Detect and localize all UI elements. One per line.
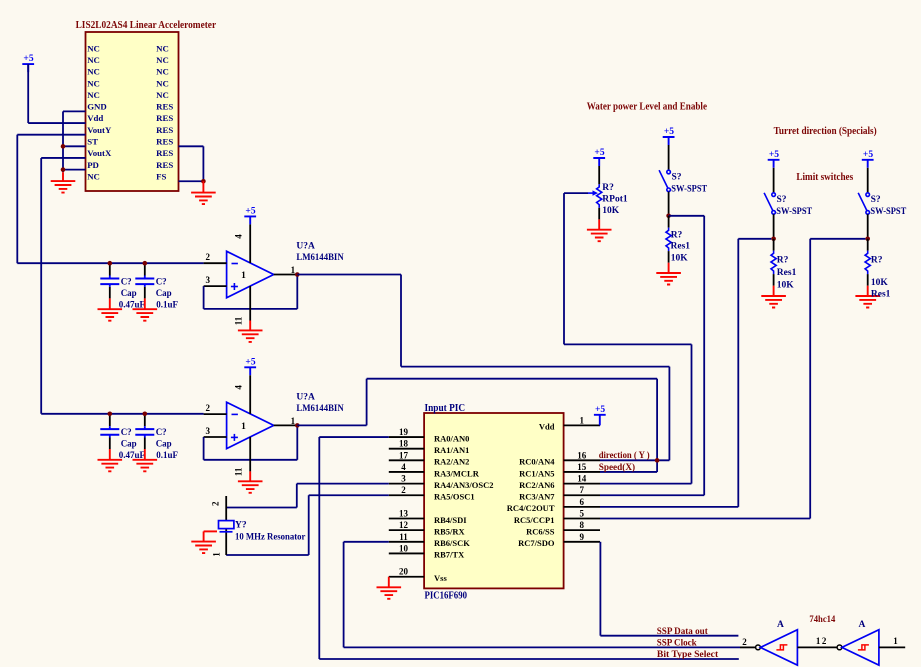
- wire RA5/OSC1 to resonator pin 1: [309, 494, 389, 496]
- svg-text:+5: +5: [245, 207, 255, 217]
- junction ST: [61, 144, 66, 149]
- accelerometer IC U? LIS2L02AS4: [86, 32, 179, 191]
- PIC pin 5 RC5/CCP1: [564, 518, 600, 520]
- wire PD pin: [63, 169, 86, 171]
- svg-text:RPot1: RPot1: [602, 195, 628, 205]
- PIC pin 1 Vdd: [564, 424, 600, 426]
- PIC pin 15 RC1/AN5: [564, 471, 600, 473]
- svg-text:SW-SPST: SW-SPST: [870, 207, 906, 217]
- microcontroller U? PIC16F690 Input PIC: [424, 413, 563, 588]
- wire ST pin: [63, 145, 86, 147]
- svg-text:RC2/AN6: RC2/AN6: [519, 480, 554, 490]
- svg-text:1: 1: [212, 552, 222, 557]
- svg-text:RB5/RX: RB5/RX: [434, 526, 466, 536]
- svg-text:RC1/AN5: RC1/AN5: [519, 468, 554, 478]
- power +5 pin 4: [244, 367, 256, 375]
- svg-text:1: 1: [241, 422, 246, 432]
- svg-text:10: 10: [399, 543, 409, 553]
- svg-text:5: 5: [580, 509, 585, 519]
- svg-text:RES: RES: [156, 137, 173, 147]
- PIC pin 6 RC4/C2OUT: [564, 506, 600, 508]
- svg-text:14: 14: [577, 474, 587, 484]
- svg-text:11: 11: [234, 467, 244, 476]
- resistor R? Res1 10K water: [656, 216, 681, 285]
- svg-text:16: 16: [577, 450, 587, 460]
- svg-text:Cap: Cap: [156, 439, 172, 449]
- pin 1 output stub: [274, 424, 298, 426]
- power +5 pin 4: [244, 216, 256, 224]
- junction direction/speed: [655, 458, 660, 463]
- junction water switch: [666, 214, 671, 219]
- inverter gate A 74hc14: [837, 645, 842, 650]
- wire RC7/SDO to SSP Data out: [599, 542, 601, 636]
- wire RA0 to Bit Type Select: [319, 436, 389, 438]
- svg-text:S?: S?: [777, 195, 787, 205]
- svg-text:19: 19: [399, 427, 409, 437]
- svg-text:12: 12: [399, 520, 409, 530]
- svg-text:RC4/C2OUT: RC4/C2OUT: [507, 503, 555, 513]
- ground Vss: [388, 577, 390, 588]
- PIC pin 2 RA5/OSC1: [389, 494, 424, 496]
- svg-text:10K: 10K: [871, 278, 889, 288]
- junction turret switch: [771, 237, 776, 242]
- PIC pin 4 RA3/MCLR: [389, 471, 424, 473]
- svg-text:7: 7: [580, 485, 585, 495]
- svg-text:NC: NC: [87, 55, 100, 65]
- svg-text:20: 20: [399, 567, 409, 577]
- svg-text:Vdd: Vdd: [539, 422, 555, 432]
- svg-text:GND: GND: [87, 102, 107, 112]
- PIC pin 12 RB5/RX: [389, 529, 424, 531]
- svg-text:NC: NC: [87, 78, 100, 88]
- svg-text:4: 4: [401, 462, 406, 472]
- svg-text:0.47uF: 0.47uF: [119, 299, 146, 309]
- PIC pin 9 RC7/SDO: [564, 541, 600, 543]
- svg-text:Bit Type Select: Bit Type Select: [657, 650, 719, 660]
- svg-text:RB6/SCK: RB6/SCK: [434, 538, 470, 548]
- wire turret B to RC5: [810, 238, 865, 240]
- svg-text:PIC16F690: PIC16F690: [425, 591, 468, 602]
- wiper arrow: [588, 192, 594, 194]
- wire +5 to Vdd pin: [27, 64, 29, 123]
- svg-text:S?: S?: [672, 172, 682, 182]
- svg-text:RC3/AN7: RC3/AN7: [519, 492, 555, 502]
- svg-text:2: 2: [206, 403, 211, 413]
- wire VoutY to op-amp 1 input: [17, 134, 85, 136]
- switch S? SW-SPST water power: [663, 137, 675, 145]
- svg-text:RC5/CCP1: RC5/CCP1: [514, 515, 555, 525]
- svg-text:0.1uF: 0.1uF: [156, 299, 178, 309]
- svg-text:RA1/AN1: RA1/AN1: [434, 445, 469, 455]
- svg-text:NC: NC: [156, 78, 169, 88]
- svg-text:RES: RES: [156, 148, 173, 158]
- ground accel right: [202, 181, 204, 192]
- inverter gate A 74hc14: [756, 645, 761, 650]
- svg-text:4: 4: [234, 234, 244, 239]
- svg-text:+5: +5: [23, 54, 33, 64]
- svg-text:0.1uF: 0.1uF: [156, 450, 178, 460]
- svg-text:1: 1: [291, 416, 296, 426]
- pin 2 stub: [204, 262, 227, 264]
- svg-text:RC7/SDO: RC7/SDO: [518, 538, 555, 548]
- svg-text:NC: NC: [156, 55, 169, 65]
- svg-text:+5: +5: [245, 357, 255, 367]
- svg-text:Cap: Cap: [156, 288, 172, 298]
- PIC pin 16 RC0/AN4: [564, 459, 600, 461]
- svg-text:3: 3: [206, 426, 211, 436]
- wire between inverters: [797, 646, 837, 648]
- PIC pin 3 RA4/AN3/OSC2: [389, 483, 424, 485]
- input stub right inverter: [879, 646, 905, 648]
- svg-text:RA5/OSC1: RA5/OSC1: [434, 492, 475, 502]
- svg-text:18: 18: [399, 439, 409, 449]
- svg-text:RC6/SS: RC6/SS: [526, 526, 555, 536]
- ground accel left: [62, 172, 64, 181]
- PIC pin 8 RC6/SS: [564, 529, 600, 531]
- wire RPot wiper to RC2: [564, 192, 588, 194]
- op-amp U?A LM6144BIN: [227, 402, 274, 448]
- power +5 accel: [22, 64, 34, 72]
- svg-text:C?: C?: [156, 276, 167, 286]
- PIC pin 10 RB7/TX: [389, 552, 424, 554]
- svg-text:SW-SPST: SW-SPST: [671, 184, 707, 194]
- PIC pin 11 RB6/SCK: [389, 541, 424, 543]
- switch S? SW-SPST turret: [768, 160, 780, 168]
- wire op-amp1 output to RC0 direction(Y): [297, 274, 401, 276]
- svg-text:+5: +5: [863, 150, 873, 160]
- capacitor C? 0.47uF (op-amp 1): [98, 263, 123, 321]
- svg-text:U?A: U?A: [296, 392, 315, 402]
- svg-text:+5: +5: [595, 405, 605, 415]
- svg-text:3: 3: [206, 275, 211, 285]
- PIC pin 13 RB4/SDI: [389, 518, 424, 520]
- svg-text:Speed(X): Speed(X): [599, 462, 635, 473]
- svg-text:C?: C?: [156, 427, 167, 437]
- wire water switch to RC3: [669, 215, 705, 217]
- svg-text:2: 2: [742, 637, 747, 647]
- pin 3 stub: [204, 436, 227, 438]
- svg-text:2: 2: [206, 252, 211, 262]
- svg-text:15: 15: [577, 462, 587, 472]
- svg-text:VoutY: VoutY: [87, 125, 112, 135]
- svg-text:RES: RES: [156, 113, 173, 123]
- pin 2 stub: [204, 413, 227, 415]
- svg-text:2: 2: [401, 485, 406, 495]
- svg-text:13: 13: [399, 509, 409, 519]
- svg-text:PD: PD: [87, 160, 99, 170]
- ground pin 11: [249, 286, 251, 321]
- pin 3 stub: [204, 285, 227, 287]
- svg-text:A: A: [777, 620, 784, 630]
- wire op-amp2 output to RC1 Speed(X): [297, 424, 366, 426]
- PIC pin 14 RC2/AN6: [564, 483, 600, 485]
- svg-text:Input PIC: Input PIC: [425, 403, 466, 414]
- svg-text:10 MHz Resonator: 10 MHz Resonator: [235, 533, 306, 543]
- svg-text:2: 2: [211, 501, 221, 506]
- svg-text:RES: RES: [156, 160, 173, 170]
- wire RES pin to FS pin: [179, 145, 204, 147]
- svg-text:Vss: Vss: [434, 573, 447, 583]
- svg-text:RB7/TX: RB7/TX: [434, 550, 465, 560]
- wire VoutX to op-amp 2 input: [41, 157, 85, 159]
- svg-text:Res1: Res1: [671, 242, 691, 252]
- svg-text:NC: NC: [87, 171, 100, 181]
- ground pin 11: [249, 437, 251, 472]
- svg-text:3: 3: [401, 474, 406, 484]
- PIC pin 17 RA2/AN2: [389, 459, 424, 461]
- wire turret A to RC4: [738, 238, 771, 240]
- svg-text:C?: C?: [121, 427, 132, 437]
- svg-text:ST: ST: [87, 137, 98, 147]
- svg-text:11: 11: [399, 532, 408, 542]
- svg-text:10K: 10K: [777, 280, 795, 290]
- svg-text:RA0/AN0: RA0/AN0: [434, 433, 469, 443]
- resonator Y? 10 MHz: [225, 496, 227, 521]
- PIC pin 20 Vss: [389, 576, 424, 578]
- PIC pin 19 RA0/AN0: [389, 436, 424, 438]
- svg-text:R?: R?: [671, 231, 683, 241]
- svg-text:+5: +5: [664, 127, 674, 137]
- svg-text:LM6144BIN: LM6144BIN: [296, 404, 343, 414]
- svg-text:R?: R?: [777, 255, 789, 265]
- svg-text:R?: R?: [602, 183, 614, 193]
- wire RB6/SCK to SSP Clock: [344, 541, 389, 543]
- svg-text:Y?: Y?: [235, 520, 247, 530]
- svg-text:SW-SPST: SW-SPST: [776, 207, 812, 217]
- svg-text:9: 9: [580, 532, 585, 542]
- svg-text:11: 11: [234, 316, 244, 325]
- svg-text:1: 1: [816, 636, 821, 646]
- wire RA4/OSC2 to resonator pin 2: [297, 483, 389, 485]
- wire GND pin to ground: [63, 110, 86, 112]
- svg-text:RA3/MCLR: RA3/MCLR: [434, 468, 480, 478]
- svg-text:C?: C?: [121, 276, 132, 286]
- junction PD: [61, 167, 66, 172]
- svg-text:S?: S?: [871, 195, 881, 205]
- resistor R? Res1 10K turret: [761, 239, 786, 308]
- svg-text:10K: 10K: [671, 254, 689, 264]
- svg-text:RB4/SDI: RB4/SDI: [434, 515, 467, 525]
- resistor R? Res1 10K turret: [855, 239, 880, 308]
- svg-text:LM6144BIN: LM6144BIN: [296, 253, 343, 263]
- op-amp U?A LM6144BIN: [227, 251, 274, 297]
- svg-text:Res1: Res1: [777, 268, 797, 278]
- svg-text:8: 8: [580, 520, 585, 530]
- svg-text:Cap: Cap: [121, 439, 137, 449]
- svg-text:RES: RES: [156, 102, 173, 112]
- PIC pin 7 RC3/AN7: [564, 494, 600, 496]
- svg-text:1: 1: [580, 415, 585, 425]
- svg-text:FS: FS: [156, 171, 166, 181]
- svg-text:R?: R?: [871, 255, 883, 265]
- pin 1 output stub: [274, 274, 298, 276]
- svg-text:SSP Clock: SSP Clock: [657, 639, 698, 649]
- capacitor C? 0.1uF (op-amp 2): [133, 414, 158, 472]
- junction output: [295, 272, 300, 277]
- svg-text:NC: NC: [156, 67, 169, 77]
- feedback wire: [296, 425, 298, 459]
- PIC pin 18 RA1/AN1: [389, 448, 424, 450]
- feedback wire: [296, 275, 298, 309]
- svg-text:RES: RES: [156, 125, 173, 135]
- power +5 PIC Vdd: [594, 415, 606, 426]
- svg-text:Water power Level and Enable: Water power Level and Enable: [587, 102, 708, 113]
- svg-text:NC: NC: [87, 67, 100, 77]
- svg-text:+5: +5: [769, 150, 779, 160]
- svg-text:NC: NC: [87, 90, 100, 100]
- svg-text:NC: NC: [87, 43, 100, 53]
- svg-text:direction ( Y ): direction ( Y ): [599, 450, 650, 461]
- junction output: [295, 423, 300, 428]
- svg-text:17: 17: [399, 450, 409, 460]
- capacitor C? 0.1uF (op-amp 1): [133, 263, 158, 321]
- svg-text:1: 1: [241, 271, 246, 281]
- junction turret switch: [865, 237, 870, 242]
- svg-text:1: 1: [893, 636, 898, 646]
- junction FS: [201, 179, 206, 184]
- svg-text:2: 2: [822, 636, 827, 646]
- svg-text:U?A: U?A: [296, 241, 315, 251]
- svg-text:10K: 10K: [602, 206, 620, 216]
- svg-text:4: 4: [234, 385, 244, 390]
- svg-text:NC: NC: [156, 43, 169, 53]
- svg-text:Res1: Res1: [871, 290, 891, 300]
- svg-text:0.47uF: 0.47uF: [119, 450, 146, 460]
- svg-text:+5: +5: [594, 148, 604, 158]
- svg-text:RA2/AN2: RA2/AN2: [434, 457, 469, 467]
- svg-text:NC: NC: [156, 90, 169, 100]
- switch S? SW-SPST turret: [862, 160, 874, 168]
- svg-text:RC0/AN4: RC0/AN4: [519, 457, 555, 467]
- svg-text:A: A: [858, 620, 865, 630]
- ground resonator: [204, 530, 217, 532]
- potentiometer R? RPot1 10K: [593, 158, 605, 166]
- svg-text:Cap: Cap: [121, 288, 137, 298]
- svg-text:LIS2L02AS4 Linear Acceleromete: LIS2L02AS4 Linear Accelerometer: [76, 20, 217, 31]
- svg-text:6: 6: [580, 497, 585, 507]
- svg-text:RA4/AN3/OSC2: RA4/AN3/OSC2: [434, 480, 494, 490]
- svg-text:74hc14: 74hc14: [809, 615, 835, 625]
- svg-text:VoutX: VoutX: [87, 148, 112, 158]
- svg-text:Vdd: Vdd: [87, 113, 103, 123]
- capacitor C? 0.47uF (op-amp 2): [98, 414, 123, 472]
- svg-text:SSP Data out: SSP Data out: [657, 627, 709, 637]
- svg-text:Limit switches: Limit switches: [796, 172, 853, 183]
- svg-text:1: 1: [291, 265, 296, 275]
- svg-text:Turret direction (Specials): Turret direction (Specials): [774, 126, 877, 137]
